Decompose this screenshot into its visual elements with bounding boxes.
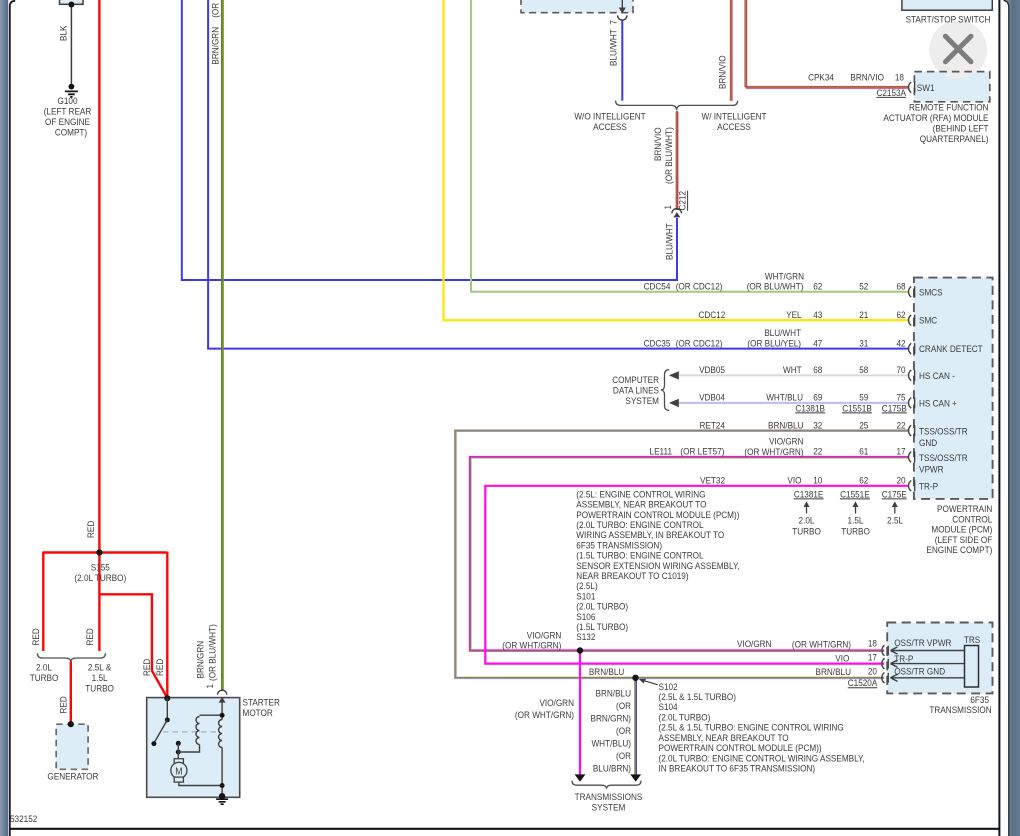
RFA pin connector SW1 (909, 82, 915, 93)
brace 2.0L / 2.5L turbo split (37, 653, 105, 662)
close (X) button (929, 21, 987, 79)
svg-text:CRANK DETECT: CRANK DETECT (919, 343, 983, 354)
svg-text:POWERTRAIN CONTROL MODULE (PCM: POWERTRAIN CONTROL MODULE (PCM)) (659, 742, 822, 753)
svg-text:68: 68 (896, 281, 905, 292)
svg-text:RED: RED (30, 628, 41, 645)
start/stop switch box (cut at top) (902, 0, 992, 10)
wire VIO VET32 PCM tr-p to transmission 17 (485, 486, 908, 664)
svg-text:C1551B: C1551B (842, 403, 872, 414)
svg-text:(OR WHT/GRN): (OR WHT/GRN) (744, 446, 803, 457)
svg-text:TR-P: TR-P (894, 653, 913, 664)
svg-text:2.0L: 2.0L (36, 662, 52, 673)
svg-text:BRN/VIO: BRN/VIO (652, 127, 663, 161)
transmission dashed box (887, 623, 992, 694)
svg-text:17: 17 (896, 446, 905, 457)
svg-text:69: 69 (813, 392, 822, 403)
arrow down transmissions system (BRN/BLU) (630, 774, 641, 781)
left slate margin bar (0, 0, 8, 836)
svg-text:21: 21 (859, 309, 868, 320)
svg-text:(OR BLU/WHT): (OR BLU/WHT) (747, 281, 804, 292)
arrow HS CAN - (669, 371, 679, 379)
svg-text:BLU/BRN): BLU/BRN) (593, 763, 631, 774)
svg-text:TSS/OSS/TR: TSS/OSS/TR (919, 426, 968, 437)
svg-text:NEAR BREAKOUT TO C1019): NEAR BREAKOUT TO C1019) (576, 570, 688, 581)
svg-text:RED: RED (84, 628, 95, 645)
svg-text:HS CAN -: HS CAN - (919, 370, 955, 381)
svg-text:TURBO: TURBO (792, 526, 821, 537)
wire RED left branch 2.0L (42, 552, 44, 652)
svg-text:42: 42 (896, 338, 905, 349)
svg-text:VDB05: VDB05 (699, 364, 725, 375)
svg-text:RED: RED (85, 521, 96, 538)
svg-text:(OR WHT/GRN): (OR WHT/GRN) (515, 709, 574, 720)
svg-text:17: 17 (868, 652, 877, 663)
TRS arrows to pins (891, 647, 965, 654)
svg-text:(OR LET57): (OR LET57) (680, 446, 724, 457)
dashed box top center (start/stop related, cut at top) (521, 0, 633, 13)
wire RED main vertical to S155 (98, 0, 100, 553)
svg-text:18: 18 (868, 638, 877, 649)
node junction dot at G100 box (68, 2, 74, 8)
svg-text:32: 32 (813, 420, 822, 431)
svg-text:BRN/GRN: BRN/GRN (195, 641, 206, 679)
svg-text:M: M (175, 766, 182, 778)
connector C212 symbol (672, 209, 682, 214)
svg-text:VPWR: VPWR (919, 464, 944, 475)
svg-text:(OR WHT/GRN): (OR WHT/GRN) (792, 639, 851, 650)
svg-text:ACCESS: ACCESS (593, 121, 627, 132)
svg-text:WHT/GRN: WHT/GRN (765, 271, 804, 282)
svg-text:62: 62 (896, 309, 905, 320)
wire switch feed (166, 698, 168, 720)
svg-text:RED: RED (141, 659, 152, 676)
wire WHT/BLU to HS CAN + (671, 402, 909, 404)
svg-text:C175E: C175E (882, 489, 907, 500)
PCM dashed box (914, 278, 993, 499)
svg-text:HS CAN +: HS CAN + (919, 398, 957, 409)
svg-text:CPK34: CPK34 (808, 72, 834, 83)
wire coil bottom to contact (178, 745, 199, 753)
svg-text:TRS: TRS (964, 635, 980, 646)
PCM pin connectors (arc+bar) (882, 82, 915, 683)
svg-text:(OR CDC12): (OR CDC12) (676, 281, 723, 292)
wire BLU 1 to SMCS junction (182, 0, 677, 280)
svg-text:C1520A: C1520A (848, 677, 878, 688)
computer data lines brace (661, 370, 670, 411)
svg-text:1: 1 (204, 684, 215, 689)
svg-text:START/STOP SWITCH: START/STOP SWITCH (906, 14, 991, 25)
svg-text:(OR BLU/WHT): (OR BLU/WHT) (664, 127, 675, 184)
svg-text:(2.5L & 1.5L TURBO: ENGINE CON: (2.5L & 1.5L TURBO: ENGINE CONTROL WIRIN… (659, 722, 844, 733)
svg-text:C1551E: C1551E (840, 489, 870, 500)
svg-text:(OR: (OR (616, 725, 632, 736)
svg-text:TURBO: TURBO (841, 526, 870, 537)
svg-text:SYSTEM: SYSTEM (592, 802, 626, 813)
svg-text:22: 22 (896, 420, 905, 431)
svg-text:LE111: LE111 (650, 446, 672, 457)
svg-text:75: 75 (896, 392, 905, 403)
svg-text:59: 59 (859, 392, 868, 403)
svg-text:CDC35: CDC35 (644, 338, 671, 349)
motor M (174, 759, 183, 764)
arrow down transmissions system (VIO/GRN) (575, 774, 586, 781)
svg-text:ACCESS: ACCESS (717, 121, 751, 132)
svg-text:OF ENGINE: OF ENGINE (45, 116, 90, 127)
node S155 junction dot (96, 549, 102, 555)
svg-text:DATA LINES: DATA LINES (613, 385, 659, 396)
svg-text:(OR WHT/GRN): (OR WHT/GRN) (502, 640, 561, 651)
wire BLU 2 to CRANK DETECT (208, 0, 909, 349)
brace w/o-w/ intelligent access (616, 101, 738, 111)
svg-text:(2.5L: ENGINE CONTROL WIRING: (2.5L: ENGINE CONTROL WIRING (576, 489, 705, 500)
svg-text:1: 1 (662, 205, 673, 210)
generator dashed box (56, 724, 88, 769)
arrow up at starter connector (219, 697, 226, 703)
node dot main line bottom (220, 783, 225, 788)
ground G100 (69, 84, 75, 90)
svg-text:52: 52 (859, 281, 868, 292)
wire BRN/GRN to starter motor (two-tone) (221, 0, 223, 691)
svg-text:TURBO: TURBO (30, 672, 59, 683)
arrow HS CAN + (669, 399, 679, 407)
svg-text:BLK: BLK (58, 25, 69, 41)
svg-text:ENGINE COMPT): ENGINE COMPT) (926, 545, 992, 556)
svg-text:SW1: SW1 (917, 82, 935, 93)
svg-text:BRN/GRN): BRN/GRN) (591, 713, 631, 724)
svg-text:TR-P: TR-P (919, 481, 938, 492)
svg-text:RED: RED (154, 659, 165, 676)
svg-text:TURBO: TURBO (85, 683, 114, 694)
svg-text:62: 62 (813, 281, 822, 292)
svg-text:GND: GND (919, 437, 937, 448)
svg-text:RED: RED (58, 696, 69, 713)
svg-text:61: 61 (859, 446, 868, 457)
svg-text:BRN/VIO: BRN/VIO (850, 72, 884, 83)
node S-junction dot VIO/GRN (577, 647, 583, 653)
svg-text:(OR: (OR (616, 750, 632, 761)
wire BLK from G100 box (70, 5, 72, 86)
svg-text:COMPT): COMPT) (55, 127, 87, 138)
svg-text:TSS/OSS/TR: TSS/OSS/TR (919, 453, 968, 464)
arrows up 2.0L/1.5L/2.5L turbo under PCM connectors (806, 504, 808, 514)
TRS component rectangle (965, 646, 979, 688)
bottom separator line (10, 828, 1000, 830)
svg-text:S132: S132 (576, 632, 595, 643)
svg-text:C212: C212 (677, 191, 688, 211)
wire VIO/GRN LE111 PCM vpwr to transmission 18 (470, 457, 909, 651)
svg-text:31: 31 (859, 338, 868, 349)
connector cup below top dashed box (621, 0, 623, 9)
ground at starter motor (219, 793, 225, 799)
wire RED right branch to starter (166, 552, 168, 699)
wire contact to motor (176, 750, 181, 755)
svg-text:BRN/GRN (OR BLU/WHT): BRN/GRN (OR BLU/WHT) (210, 0, 221, 65)
svg-text:CDC54: CDC54 (644, 281, 671, 292)
svg-text:62: 62 (859, 475, 868, 486)
node red entry junction dot (164, 695, 170, 701)
svg-text:(OR BLU/WHT): (OR BLU/WHT) (207, 624, 218, 681)
svg-text:OSS/TR VPWR: OSS/TR VPWR (894, 637, 952, 648)
wire RED mid branch 2.5L/1.5L (98, 553, 100, 652)
svg-text:GENERATOR: GENERATOR (47, 771, 99, 782)
svg-text:(LEFT REAR: (LEFT REAR (44, 106, 92, 117)
svg-text:VIO/GRN: VIO/GRN (769, 436, 804, 447)
RFA module box fill (914, 72, 989, 102)
wire BRN/VIO CPK34 to RFA module two-tone (745, 0, 909, 87)
svg-text:CONTROL: CONTROL (952, 514, 992, 525)
svg-text:WHT/BLU): WHT/BLU) (591, 738, 631, 749)
wire WHT to HS CAN - (671, 374, 909, 376)
svg-text:(2.0L TURBO): (2.0L TURBO) (659, 712, 711, 723)
svg-text:SYSTEM: SYSTEM (625, 395, 659, 406)
wire VIO/GRN down to transmissions system (579, 651, 581, 776)
svg-text:1.5L: 1.5L (848, 515, 864, 526)
svg-text:BRN/BLU: BRN/BLU (768, 420, 803, 431)
svg-text:S106: S106 (576, 611, 595, 622)
svg-text:47: 47 (813, 338, 822, 349)
svg-text:(OR BLU/YEL): (OR BLU/YEL) (747, 338, 801, 349)
wire BRN/BLU RET24 PCM gnd to transmission (455, 431, 908, 678)
svg-text:1.5L: 1.5L (92, 673, 108, 684)
svg-text:BLU/WHT 7: BLU/WHT 7 (608, 20, 619, 66)
svg-text:MOTOR: MOTOR (243, 707, 274, 718)
svg-text:20: 20 (896, 475, 905, 486)
svg-text:BLU/WHT: BLU/WHT (664, 223, 675, 260)
coil top connect (200, 714, 223, 716)
svg-text:STARTER: STARTER (243, 697, 281, 708)
svg-text:43: 43 (813, 309, 822, 320)
svg-text:(2.0L TURBO: ENGINE CONTROL: (2.0L TURBO: ENGINE CONTROL (576, 519, 703, 530)
svg-text:(OR: (OR (616, 700, 632, 711)
right slate scrollbar panel with rounded top-left corner (1004, 0, 1020, 836)
svg-text:SENSOR EXTENSION WIRING ASSEMB: SENSOR EXTENSION WIRING ASSEMBLY, (576, 560, 739, 571)
svg-text:SMCS: SMCS (919, 287, 943, 298)
svg-text:22: 22 (813, 446, 822, 457)
coil (pull-in winding) (196, 717, 199, 745)
wire motor to main line (179, 782, 222, 785)
main line from top connector to ground (221, 698, 223, 796)
wire BRN/VIO merged below brace to C212 (675, 111, 677, 210)
wire RED branch to starter via diagonal (99, 594, 167, 698)
svg-text:(2.0L TURBO): (2.0L TURBO) (576, 601, 628, 612)
component box above G100 wire (cut at top) (60, 0, 84, 4)
svg-text:(LEFT SIDE OF: (LEFT SIDE OF (935, 534, 993, 545)
brace transmissions system (572, 781, 641, 789)
svg-text:CDC12: CDC12 (698, 309, 725, 320)
svg-text:70: 70 (896, 364, 905, 375)
svg-text:(2.5L): (2.5L) (576, 581, 597, 592)
svg-text:ASSEMBLY, NEAR BREAKOUT TO: ASSEMBLY, NEAR BREAKOUT TO (659, 732, 789, 743)
wire BRN/BLU down to transmissions system (two-tone) (634, 678, 636, 775)
wire BLU/WHT 7 from start/stop dashed box (621, 20, 623, 101)
svg-text:(BEHIND LEFT: (BEHIND LEFT (933, 123, 989, 134)
node generator junction dot (68, 721, 74, 727)
page border left with rounded top-left corner (10, 1, 15, 836)
svg-text:C1381E: C1381E (794, 489, 824, 500)
svg-text:WIRING ASSEMBLY, IN BREAKOUT T: WIRING ASSEMBLY, IN BREAKOUT TO (576, 530, 724, 541)
RFA module dashed border (914, 72, 989, 102)
svg-text:(1.5L TURBO): (1.5L TURBO) (576, 621, 628, 632)
svg-text:S155: S155 (91, 562, 110, 573)
svg-text:532152: 532152 (10, 813, 37, 824)
svg-text:IN BREAKOUT TO 6F35 TRANSMISSI: IN BREAKOUT TO 6F35 TRANSMISSION) (659, 763, 816, 774)
dashed linkage (163, 731, 216, 733)
svg-text:(2.0L TURBO: ENGINE CONTROL WI: (2.0L TURBO: ENGINE CONTROL WIRING ASSEM… (659, 753, 865, 764)
svg-text:TRANSMISSION: TRANSMISSION (929, 704, 991, 715)
connector cup at starter (BRN/GRN entry) (218, 690, 227, 695)
transmission pin connectors (882, 645, 888, 656)
svg-text:ACTUATOR (RFA) MODULE: ACTUATOR (RFA) MODULE (883, 112, 988, 123)
svg-text:25: 25 (859, 420, 868, 431)
svg-text:C2153A: C2153A (876, 87, 906, 98)
wire RED to generator (70, 662, 72, 725)
svg-text:POWERTRAIN CONTROL MODULE (PCM: POWERTRAIN CONTROL MODULE (PCM)) (576, 509, 739, 520)
svg-text:ASSEMBLY, NEAR BREAKOUT TO: ASSEMBLY, NEAR BREAKOUT TO (576, 499, 706, 510)
svg-text:OSS/TR GND: OSS/TR GND (894, 666, 945, 677)
S102 pointer arrow (643, 680, 658, 684)
svg-text:VDB04: VDB04 (699, 392, 725, 403)
svg-text:20: 20 (868, 666, 877, 677)
svg-text:58: 58 (859, 364, 868, 375)
svg-text:VIO: VIO (787, 475, 801, 486)
svg-text:VIO: VIO (835, 653, 849, 664)
svg-text:C1381B: C1381B (795, 403, 825, 414)
wire YEL to SMC (444, 0, 909, 320)
node S102 junction dot (632, 675, 638, 681)
svg-text:68: 68 (813, 364, 822, 375)
svg-text:(OR CDC12): (OR CDC12) (676, 338, 723, 349)
svg-text:G100: G100 (57, 95, 77, 106)
svg-text:MODULE (PCM): MODULE (PCM) (931, 524, 992, 535)
wire WHT/GRN (light green) to SMCS (471, 0, 909, 292)
svg-text:BRN/BLU: BRN/BLU (596, 688, 631, 699)
svg-text:S104: S104 (659, 702, 678, 713)
svg-text:18: 18 (895, 72, 904, 83)
svg-text:WHT/BLU: WHT/BLU (766, 392, 803, 403)
svg-text:2.5L &: 2.5L & (88, 662, 111, 673)
svg-text:BLU/WHT: BLU/WHT (764, 328, 801, 339)
svg-text:VIO/GRN: VIO/GRN (539, 697, 574, 708)
svg-text:VIO/GRN: VIO/GRN (737, 638, 772, 649)
svg-text:SMC: SMC (919, 315, 938, 326)
svg-text:BRN/VIO: BRN/VIO (717, 55, 728, 89)
svg-text:TRANSMISSIONS: TRANSMISSIONS (575, 791, 643, 802)
svg-text:2.5L: 2.5L (887, 515, 903, 526)
svg-text:VET32: VET32 (700, 475, 725, 486)
svg-text:(2.5L & 1.5L TURBO): (2.5L & 1.5L TURBO) (659, 691, 736, 702)
svg-text:(2.0L TURBO): (2.0L TURBO) (74, 572, 126, 583)
svg-text:6F35 TRANSMISSION): 6F35 TRANSMISSION) (576, 540, 662, 551)
svg-text:POWERTRAIN: POWERTRAIN (937, 503, 992, 514)
svg-text:QUARTERPANEL): QUARTERPANEL) (920, 133, 989, 144)
svg-text:S101: S101 (576, 591, 595, 602)
svg-text:BRN/BLU: BRN/BLU (816, 666, 851, 677)
svg-text:RET24: RET24 (700, 420, 726, 431)
wire RED S155 horizontal (43, 551, 166, 553)
svg-text:2.0L: 2.0L (799, 515, 815, 526)
svg-text:COMPUTER: COMPUTER (612, 374, 659, 385)
svg-text:BRN/BLU: BRN/BLU (589, 666, 624, 677)
wire BRN/VIO left (w/o IA) two-tone (730, 0, 732, 101)
svg-text:YEL: YEL (786, 309, 802, 320)
switch blade and contacts (165, 717, 170, 722)
starter motor box (147, 698, 240, 798)
svg-text:WHT: WHT (783, 364, 802, 375)
wire BLU/WHT below C212 (676, 218, 678, 281)
page border right (998, 0, 1000, 836)
svg-text:C175B: C175B (882, 403, 907, 414)
svg-text:10: 10 (813, 475, 822, 486)
coil (hold-in winding) (219, 720, 223, 748)
svg-text:S102: S102 (659, 681, 678, 692)
svg-text:REMOTE FUNCTION: REMOTE FUNCTION (909, 102, 989, 113)
svg-text:(1.5L TURBO: ENGINE CONTROL: (1.5L TURBO: ENGINE CONTROL (576, 550, 703, 561)
